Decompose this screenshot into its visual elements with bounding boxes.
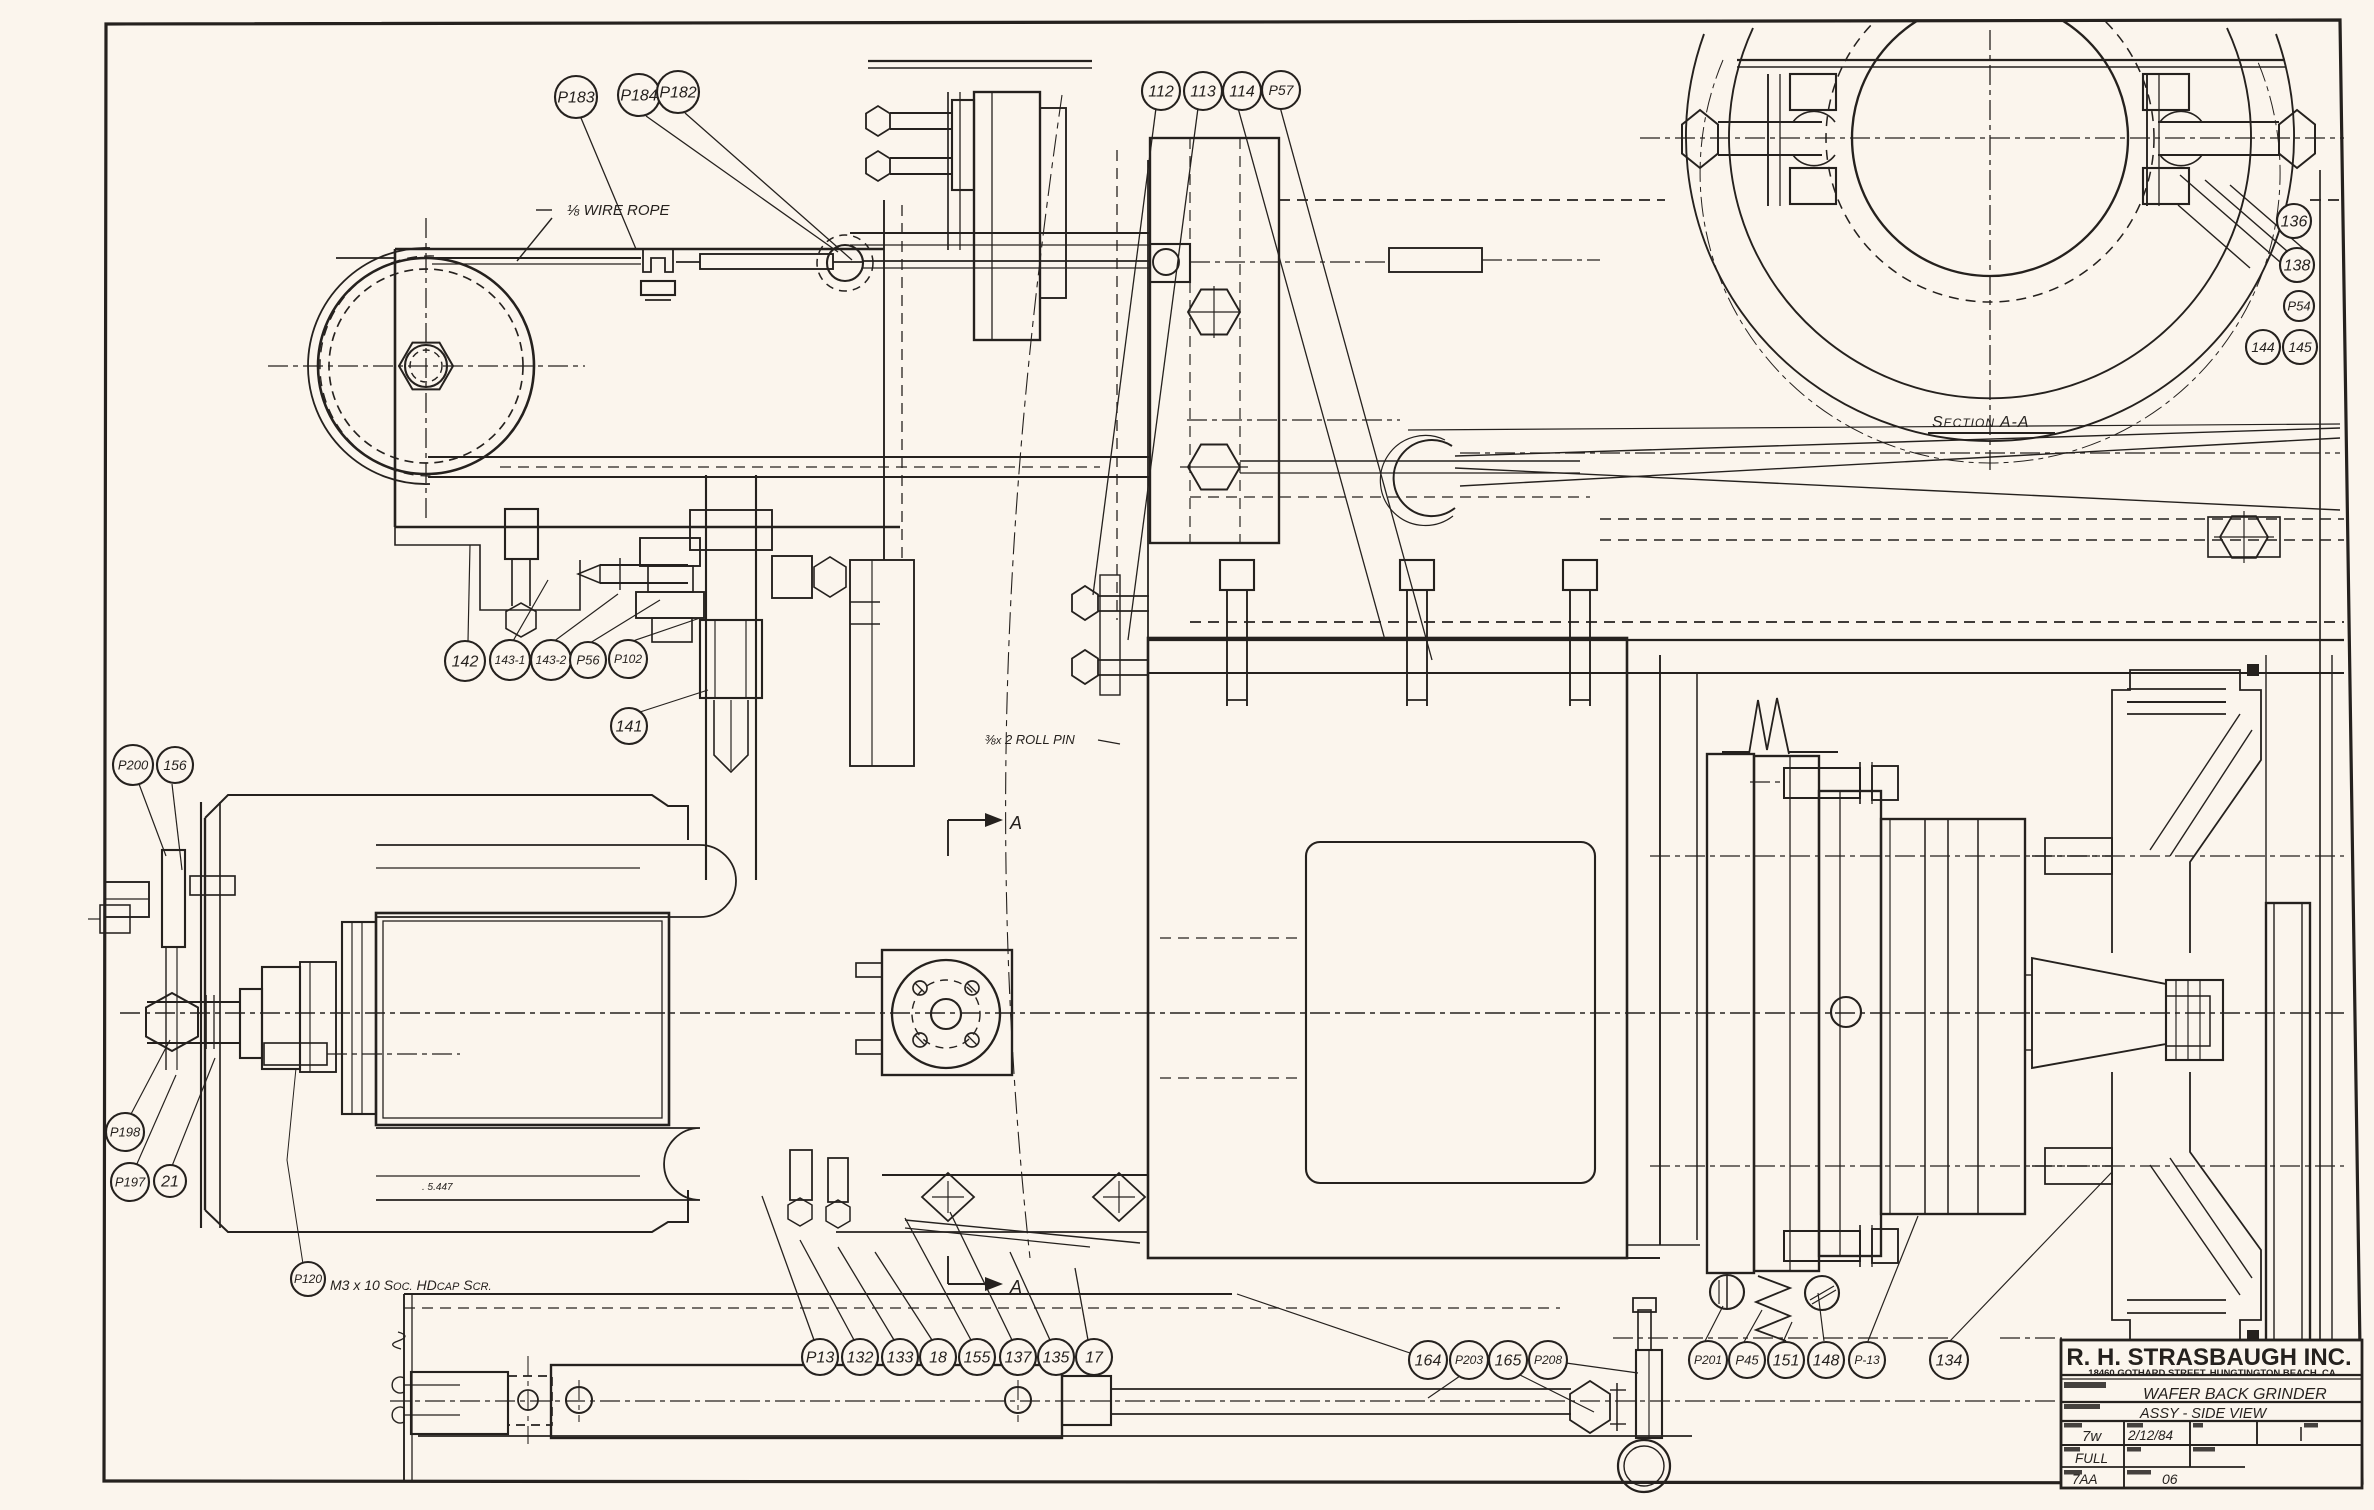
rope clamp — [643, 250, 673, 272]
leader P200 — [139, 784, 166, 856]
leader P-13 — [1868, 1216, 1918, 1341]
leader 143-1 — [513, 580, 548, 641]
balloon P200 — [113, 745, 153, 785]
rope hook — [1394, 440, 1455, 516]
balloon 138 — [2280, 248, 2314, 282]
balloon P208 — [1529, 1341, 1567, 1379]
balloon 137 — [1000, 1339, 1036, 1375]
left support block — [850, 560, 914, 766]
wire rope upper run — [432, 257, 641, 259]
svg-text:18: 18 — [929, 1349, 947, 1366]
svg-text:136: 136 — [2281, 213, 2308, 230]
v-belt grooves — [1749, 698, 1789, 754]
bracket bolt 2 — [866, 151, 890, 181]
leader 151 — [1783, 1322, 1792, 1342]
balloon P102 — [609, 640, 647, 678]
base line — [404, 1293, 1232, 1295]
center stub lines — [2032, 855, 2112, 857]
right trunnion bolt — [2279, 110, 2315, 168]
svg-text:132: 132 — [847, 1349, 874, 1366]
drum belt runs — [428, 456, 1150, 458]
balloon P13 — [802, 1339, 838, 1375]
body inner panel — [1306, 842, 1595, 1183]
motor end cap — [342, 922, 376, 1114]
balloon P57 — [1262, 71, 1300, 109]
plate bolts — [392, 1377, 404, 1393]
gear housing block 112 — [1150, 138, 1279, 543]
hex bolt on block upper — [1188, 290, 1240, 335]
lower right bracket — [2112, 1072, 2261, 1345]
leader 148 — [1818, 1293, 1824, 1341]
balloon 133 — [882, 1339, 918, 1375]
bar pins — [566, 1387, 592, 1413]
shaft coupling — [240, 989, 262, 1058]
top right frame double line — [1737, 59, 2285, 61]
balloon 112 — [1142, 72, 1180, 110]
leader 132 — [800, 1240, 854, 1340]
section A-A centerlines — [1989, 30, 1991, 470]
break squiggle — [393, 1332, 405, 1349]
svg-text:133: 133 — [887, 1349, 914, 1366]
leader P13 — [762, 1196, 814, 1340]
balloon P120 + leader — [287, 1068, 303, 1264]
svg-text:21: 21 — [160, 1173, 179, 1190]
balloon 132 — [842, 1339, 878, 1375]
svg-text:138: 138 — [2284, 257, 2311, 274]
bar clevis — [1062, 1376, 1111, 1425]
ball detent left — [1710, 1275, 1744, 1309]
motor shaft — [147, 1001, 240, 1003]
bed rail bottom — [1148, 672, 2344, 674]
motor mount arm lower — [376, 1128, 700, 1200]
svg-text:P13: P13 — [806, 1349, 835, 1366]
balloon P201 — [1689, 1341, 1727, 1379]
clamp stack — [640, 538, 700, 566]
svg-text:P203: P203 — [1455, 1353, 1483, 1367]
leader 165 — [1520, 1375, 1594, 1412]
svg-text:⅜x 2 ROLL PIN: ⅜x 2 ROLL PIN — [985, 732, 1075, 747]
svg-text:145: 145 — [2288, 339, 2312, 355]
svg-text:P45: P45 — [1735, 1352, 1759, 1367]
balloon 151 — [1768, 1342, 1804, 1378]
svg-text:⅛ WIRE ROPE: ⅛ WIRE ROPE — [567, 202, 671, 219]
side bolt right — [772, 556, 812, 598]
draw rod — [1111, 1388, 1571, 1390]
spindle nut — [2166, 980, 2223, 1060]
leader P102 — [630, 618, 700, 642]
bracket under housing — [395, 527, 580, 610]
balloon P-13 — [1849, 1342, 1885, 1378]
stack pin — [1831, 997, 1861, 1027]
rope turnbuckle rod — [676, 261, 700, 263]
svg-text:P-13: P-13 — [1854, 1353, 1880, 1367]
slide bolts — [790, 1150, 812, 1200]
balloon P182 — [657, 71, 699, 113]
svg-text:164: 164 — [1415, 1352, 1442, 1369]
top rail — [868, 60, 1092, 62]
rope crossing runs — [1455, 428, 2340, 456]
rope centerline to right — [1190, 261, 1388, 263]
svg-text:P197: P197 — [115, 1174, 146, 1189]
svg-text:143-1: 143-1 — [495, 653, 526, 667]
leader 112 — [1093, 108, 1156, 595]
balloon P183 — [555, 76, 597, 118]
hex bolt on block lower — [1188, 445, 1240, 490]
flange bolts left — [856, 963, 882, 977]
svg-text:113: 113 — [1190, 83, 1216, 100]
balloon P120 — [291, 1262, 325, 1296]
svg-text:165: 165 — [1495, 1352, 1522, 1369]
balloon P198 — [106, 1113, 144, 1151]
lower dashed rails — [1600, 518, 2344, 520]
bed rail dashed — [1190, 621, 2344, 623]
rod from lower bolt — [1240, 460, 1580, 462]
leader 133 — [838, 1247, 894, 1340]
svg-text:P102: P102 — [614, 652, 642, 666]
svg-text:155: 155 — [964, 1349, 991, 1366]
svg-text:17: 17 — [1085, 1349, 1104, 1366]
hex bolt lower right — [2208, 517, 2280, 557]
balloon 18 — [920, 1339, 956, 1375]
bracket bolt 1 — [866, 106, 890, 136]
stud bolt x1237 — [1220, 560, 1254, 590]
svg-text:137: 137 — [1005, 1349, 1033, 1366]
section A-A bore — [1686, 0, 2294, 463]
balloon 134 — [1930, 1341, 1968, 1379]
lower frame rail — [1148, 1257, 1660, 1259]
svg-text:151: 151 — [1773, 1352, 1800, 1369]
clamp column — [705, 475, 707, 880]
svg-text:P54: P54 — [2287, 298, 2310, 313]
svg-text:142: 142 — [452, 653, 479, 670]
leader P201 — [1704, 1306, 1723, 1343]
machine edge under drum housing — [883, 200, 885, 560]
svg-text:SECTION A-A: SECTION A-A — [1932, 414, 2030, 431]
leader P57 — [1280, 107, 1432, 660]
rope anchor block — [1150, 244, 1190, 282]
housing plate top left — [395, 248, 884, 251]
wire rope pulley drum — [318, 258, 534, 474]
title block — [2061, 1340, 2362, 1488]
drum centerlines — [268, 365, 585, 367]
column tip arrow — [714, 700, 748, 772]
drum belt arc — [308, 248, 430, 484]
rod nut — [1570, 1381, 1610, 1433]
rod end stud — [1638, 1310, 1651, 1350]
svg-text:148: 148 — [1813, 1352, 1840, 1369]
balloon 155 — [959, 1339, 995, 1375]
trunnion hatch — [2180, 175, 2280, 262]
svg-text:. 5.447: . 5.447 — [422, 1182, 453, 1193]
svg-text:134: 134 — [1936, 1352, 1963, 1369]
leader 18 — [875, 1252, 932, 1340]
balloon 165 — [1489, 1341, 1527, 1379]
balloon 141 — [611, 708, 647, 744]
dashed pocket — [508, 1376, 552, 1425]
stud bolt x1580 — [1563, 560, 1597, 590]
rope hanger post — [947, 92, 949, 250]
leader P198 — [130, 1040, 170, 1116]
leader 142 — [468, 545, 470, 641]
balloon P45 — [1729, 1342, 1765, 1378]
svg-text:P183: P183 — [557, 89, 594, 106]
balloon 156 — [157, 747, 193, 783]
rod end plate — [1636, 1350, 1662, 1438]
stack bottom bolt — [1784, 1231, 1860, 1261]
rope idler pulley — [827, 245, 863, 281]
balloon P56 — [570, 642, 606, 678]
svg-text:P182: P182 — [659, 84, 696, 101]
taper cone — [2032, 958, 2166, 1068]
balloon leader P184 — [646, 116, 838, 252]
svg-text:135: 135 — [1043, 1349, 1070, 1366]
backing plate — [2266, 903, 2310, 1340]
svg-text:156: 156 — [163, 757, 187, 773]
svg-text:P201: P201 — [1694, 1353, 1722, 1367]
ball detent right — [1805, 1276, 1839, 1310]
bracket washer plate — [952, 100, 974, 190]
svg-text:R. H. STRASBAUGH INC.: R. H. STRASBAUGH INC. — [2066, 1344, 2351, 1371]
upper rail pair — [850, 232, 1150, 234]
leader 155 — [905, 1218, 971, 1340]
secondary centerlines right — [1650, 855, 2344, 857]
balloon leader P183 — [581, 118, 636, 249]
balloon 143-2 — [531, 640, 571, 680]
svg-text:P56: P56 — [576, 652, 600, 667]
left sensor bracket — [162, 850, 185, 947]
leader P56 — [590, 600, 660, 643]
section arrow A bottom — [947, 1256, 949, 1284]
rope run to anchor — [863, 260, 1150, 262]
motor end plate — [200, 802, 202, 1228]
balloon 145 — [2283, 330, 2317, 364]
svg-text:P120: P120 — [294, 1272, 322, 1286]
tiny bracket far left — [100, 905, 130, 933]
balloon 17 — [1076, 1339, 1112, 1375]
leader 114 — [1238, 108, 1385, 640]
balloon 142 — [445, 641, 485, 681]
balloon 113 — [1184, 72, 1222, 110]
balloon P184 — [618, 74, 660, 116]
balloon 164 — [1409, 1341, 1447, 1379]
svg-text:2/12/84: 2/12/84 — [2127, 1428, 2173, 1443]
leader 135 — [1010, 1252, 1050, 1340]
balloon 21 — [154, 1165, 186, 1197]
pointing bolt — [600, 564, 688, 566]
balloon 135 — [1038, 1339, 1074, 1375]
wheel hub — [1881, 819, 2025, 1214]
leader 17 — [1075, 1268, 1088, 1340]
drum center bolt — [399, 343, 453, 390]
svg-text:112: 112 — [1148, 83, 1174, 100]
wedge lines — [905, 1220, 1140, 1243]
motor housing outline — [205, 795, 688, 840]
leader P208 — [1566, 1363, 1638, 1373]
balloon P197 — [111, 1163, 149, 1201]
rope turnbuckle 2 — [1389, 248, 1482, 272]
svg-text:144: 144 — [2251, 339, 2275, 355]
svg-text:P200: P200 — [118, 757, 149, 772]
leader 164 — [1237, 1294, 1410, 1353]
balloon P203 — [1450, 1341, 1488, 1379]
pull ring — [1618, 1440, 1670, 1492]
svg-text:141: 141 — [616, 718, 643, 735]
svg-text:P208: P208 — [1534, 1353, 1562, 1367]
motor stator — [376, 913, 669, 1125]
stud bolt x1417 — [1400, 560, 1434, 590]
svg-text:ASSY - SIDE VIEW: ASSY - SIDE VIEW — [2139, 1406, 2268, 1422]
body inner dashes — [1160, 937, 1300, 939]
balloon 148 — [1808, 1342, 1844, 1378]
leader 141 — [640, 690, 708, 712]
body edge above block — [1147, 160, 1149, 638]
dashed rails right — [1279, 199, 1665, 201]
rod centerline — [390, 1400, 2055, 1402]
section arrow A top — [947, 820, 949, 856]
gib diamond left — [922, 1173, 974, 1221]
leader 137 — [950, 1212, 1012, 1340]
svg-text:114: 114 — [1229, 83, 1255, 100]
pulley stack plate C — [1819, 791, 1881, 1256]
balloon 143-1 — [490, 640, 530, 680]
svg-text:7AA: 7AA — [2072, 1472, 2098, 1487]
bar left plate — [411, 1372, 508, 1434]
leader 143-2 — [553, 594, 618, 642]
vertical bolt 142 — [505, 509, 538, 559]
leader 113 — [1128, 108, 1198, 640]
balloon row centerline — [1613, 1337, 1952, 1339]
pulley stack plate A — [1707, 754, 1754, 1273]
svg-text:P198: P198 — [110, 1124, 141, 1139]
svg-text:7w: 7w — [2082, 1428, 2102, 1445]
gib diamond right — [1093, 1173, 1145, 1221]
svg-text:P57: P57 — [1269, 82, 1295, 98]
pulley stack plate B — [1754, 756, 1819, 1271]
base column — [403, 1294, 405, 1480]
leader 134 — [1950, 1172, 2112, 1341]
svg-text:WAFER BACK GRINDER: WAFER BACK GRINDER — [2143, 1386, 2327, 1403]
svg-text:06: 06 — [2162, 1471, 2178, 1487]
balloon 136 — [2277, 204, 2311, 238]
stack top bolt — [1784, 768, 1860, 798]
spring — [1756, 1276, 1790, 1341]
hanger plate — [974, 92, 1040, 340]
coupling clamp — [300, 962, 336, 1072]
spindle flange — [882, 950, 1012, 1075]
column bolt — [700, 620, 762, 698]
balloon leader P182 — [685, 113, 852, 260]
roll pin bolts — [1072, 586, 1098, 620]
motor mount arm upper — [376, 845, 736, 917]
balloon 144 — [2246, 330, 2280, 364]
slide base plate — [882, 1174, 1148, 1176]
leader P45 — [1744, 1310, 1762, 1342]
bed rail top — [1148, 639, 2344, 641]
svg-text:P184: P184 — [620, 87, 657, 104]
balloon P54 — [2284, 291, 2314, 321]
leader 21 — [172, 1058, 215, 1166]
svg-text:A: A — [1009, 813, 1022, 833]
draw bar — [551, 1365, 1062, 1438]
main horizontal centerline — [120, 1012, 2344, 1014]
leader P197 — [136, 1075, 176, 1166]
left trunnion bolt — [1682, 110, 1718, 168]
right body edge — [1659, 655, 1661, 1245]
svg-text:FULL: FULL — [2075, 1451, 2108, 1466]
svg-text:143-2: 143-2 — [536, 653, 567, 667]
leader P203 — [1428, 1376, 1460, 1398]
upper right bracket — [2112, 670, 2261, 953]
svg-text:18460 GOTHARD STREET. HUNGTING: 18460 GOTHARD STREET. HUNGTINGTON BEACH.… — [2088, 1368, 2336, 1379]
balloon 114 — [1223, 72, 1261, 110]
leader 156 — [172, 784, 182, 870]
right column — [2319, 170, 2321, 1481]
section cut curve — [1006, 95, 1062, 1258]
main spindle body — [1148, 638, 1627, 1258]
